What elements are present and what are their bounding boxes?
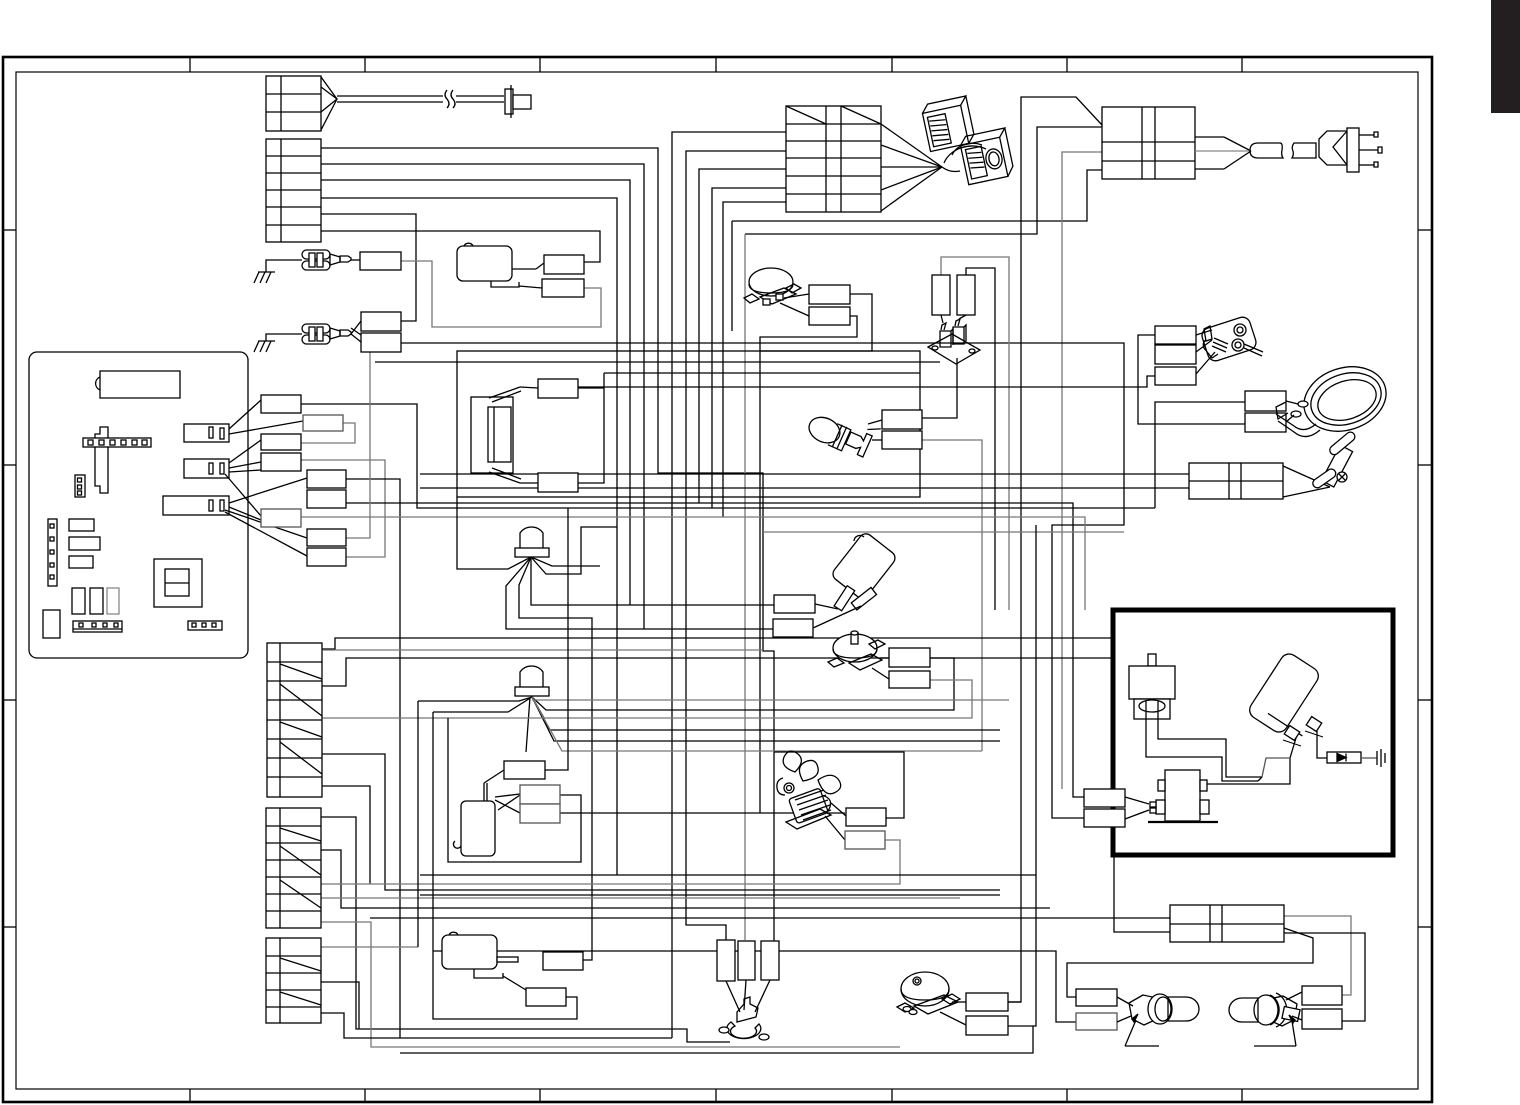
wire bus x732 [731, 221, 733, 331]
wire riser x1036 [1008, 525, 1036, 1026]
frame ticks right [1418, 230, 1432, 927]
wire label S6 [307, 490, 346, 508]
wire thermostat RB loop [760, 316, 857, 813]
bottom-right connector block G [1170, 905, 1284, 942]
wire CN-B row5 to R4 [321, 214, 416, 321]
wire B1 row3 gray [322, 680, 972, 718]
probe jack [505, 85, 531, 118]
terminal R5 [361, 333, 401, 352]
wire HV box to G row2 [1114, 855, 1170, 932]
capacitor wires [1207, 731, 1327, 784]
flame sensor terminals D2 [1155, 345, 1196, 364]
grill heater block F [1189, 463, 1330, 499]
frame ticks top [190, 57, 1242, 72]
interlock switch pictorial [719, 980, 770, 1040]
transformer primary terminals [1084, 789, 1149, 827]
wire S5 [346, 479, 400, 1038]
wire G out right j1 [1067, 928, 1313, 997]
wire CN-C row6 [723, 202, 786, 517]
wire bus x745 gray [744, 234, 746, 940]
wire B1 row4 [322, 754, 1000, 890]
wire S8 gray [346, 352, 370, 538]
wire lamp2 fan c [532, 697, 1000, 730]
wire B1 row5 [322, 786, 370, 884]
terminal K2 [1302, 1009, 1342, 1029]
wire lamp1 fan e [531, 557, 600, 566]
terminal R2 [544, 255, 584, 274]
wire door SW1 [578, 387, 604, 389]
wire P2 loop [448, 718, 581, 862]
wire Q2 loop [433, 712, 577, 1019]
wire lamp2 fan e gray [532, 697, 982, 751]
wire CN-C row4 [699, 169, 786, 503]
wire B2 row5 gray to fan Y2 [321, 840, 900, 884]
wire lamp2 fan b [532, 697, 544, 718]
temp probe cable [337, 90, 504, 108]
connector block B2 [266, 808, 321, 928]
connector CN-B (main harness) [266, 139, 321, 242]
wire SW1 long to D3 [578, 376, 1155, 387]
wire riser x418 [417, 701, 419, 947]
wire S7 long gray [301, 517, 1085, 610]
HV fuse holder [928, 315, 980, 364]
connector block B3 [266, 938, 321, 1023]
HV transformer [1148, 770, 1218, 822]
ground (HV) [1377, 749, 1385, 767]
interlock leads V5 [761, 941, 779, 980]
wire S2-S3 link gray [301, 423, 355, 443]
grill heater element pictorial [1311, 430, 1357, 489]
wire lamp1 fan c [531, 557, 774, 605]
frame ticks left [3, 230, 16, 927]
fuse F2 pictorial [302, 321, 361, 344]
wire B2 row6 gray [321, 897, 960, 899]
terminal X1 [889, 648, 930, 667]
wire label S3 [261, 434, 301, 450]
wire lamp1 fan b [519, 557, 592, 960]
magnetron [1129, 654, 1175, 719]
wire bus y221 to CN-D row3 [732, 170, 1102, 221]
terminal K1 [1302, 986, 1342, 1005]
wire CN-B row2 [321, 164, 644, 629]
wire CN-C row2 [672, 132, 786, 1038]
terminal Y2 [845, 831, 885, 849]
terminal RA [809, 285, 850, 304]
relay RY1 [457, 243, 544, 288]
wire R5 long [401, 343, 1124, 818]
wire CN-D row2 to HV [1062, 152, 1102, 789]
wire S6 long [346, 503, 1084, 797]
wire lamp1 fan d [531, 527, 617, 574]
wire lamp2 fan left2 [418, 697, 532, 701]
wire B2 row3 [321, 850, 1050, 908]
wire S1 long [301, 404, 1155, 508]
oven thermostat TH2 [828, 631, 889, 679]
wire P3 long [560, 812, 845, 814]
frame ticks bottom [190, 1089, 1242, 1102]
wire V2 to HV [966, 268, 995, 610]
wire label S1 [261, 395, 301, 413]
wire B1 row2 [322, 658, 1155, 686]
wire V1 to HV [941, 257, 1009, 610]
fuse F1 pictorial [302, 250, 360, 270]
wire B1 gray long [323, 649, 763, 651]
magnetron wires [1146, 711, 1262, 781]
terminal W2 [773, 619, 813, 637]
ground symbol 2 [254, 334, 302, 352]
connector CN-A (temp probe receptacle) [266, 76, 337, 131]
ground symbol 1 [254, 260, 302, 283]
buzzer [442, 932, 526, 990]
cavity lamp socket right [1229, 992, 1302, 1046]
terminal Y1 [846, 808, 886, 826]
door switch SW2 [538, 473, 578, 492]
terminal TM2 [966, 1016, 1008, 1035]
terminal R1 [360, 252, 401, 270]
terminal E1 [1245, 391, 1286, 411]
PCB fan-out wires [225, 400, 307, 556]
wire band y474 [420, 473, 1189, 475]
terminal X2 [889, 671, 930, 688]
wire G out right k2 [1284, 933, 1365, 1021]
HV capacitor [1246, 651, 1323, 746]
wire label S4 [261, 453, 301, 471]
wire B3 row1 gray [321, 946, 418, 948]
terminal J2 [1076, 1013, 1117, 1030]
wire y700 gray [532, 699, 1009, 701]
flame sensor terminals D1 [1155, 326, 1196, 344]
terminal Q2 [526, 988, 566, 1006]
wire label S2 [303, 415, 343, 431]
interlock leads V3 [717, 940, 735, 981]
door switch SW1 [538, 379, 578, 398]
terminal RB [809, 307, 850, 325]
wire CN-B row6 to R2 [321, 231, 600, 262]
wire band y488 [420, 487, 1189, 489]
HV fuse leads V2 [957, 275, 975, 315]
terminal P2 [520, 785, 560, 804]
wire B3 row5 [321, 1013, 672, 1038]
LED lamp 1 [515, 527, 549, 557]
terminal R3 [542, 279, 584, 297]
wire T2 out gray [922, 440, 982, 751]
oven lamp L1 pictorial [805, 402, 881, 462]
fan motor pictorial [777, 751, 846, 840]
wire B2 row7 gray [321, 922, 900, 1047]
wire G out right gray [1284, 916, 1351, 995]
wire label S5 [307, 470, 346, 488]
HV fuse leads V1 [932, 275, 950, 315]
page tab black [1491, 0, 1520, 113]
wire lamp2 fan down [526, 697, 530, 752]
terminal TM1 [966, 993, 1008, 1011]
cavity lamp socket left [1117, 994, 1199, 1046]
terminal P3 [520, 804, 560, 823]
power plug pictorial [1319, 128, 1382, 172]
wire band y895 [420, 894, 1000, 896]
power cord pictorial [1250, 143, 1316, 158]
wire CN-C row5 [712, 188, 786, 508]
blower motor pictorial [921, 96, 1015, 185]
flame sensor terminals D3 [1155, 367, 1196, 385]
terminal P1 [504, 761, 545, 779]
wire thermostat RA loop [760, 294, 872, 351]
wire band y918 [370, 917, 1170, 919]
wire B3 row3 [321, 982, 359, 1029]
wire CN-C row3 [686, 151, 786, 940]
high voltage compartment box [1113, 610, 1393, 855]
wire label S7 [261, 509, 301, 527]
wire P1 riser [545, 508, 568, 770]
terminal T1 [882, 410, 922, 429]
door latch bracket [471, 387, 538, 483]
humidity sensor pictorial [813, 531, 898, 628]
wire lamp2 fan left [433, 697, 532, 712]
terminal Q1 [543, 952, 583, 970]
wire CN-B row4 [321, 198, 617, 875]
connector block B1 [267, 643, 322, 797]
terminal E2 [1245, 413, 1286, 432]
terminal R4 [361, 312, 401, 331]
wire B1 row1 [322, 638, 1138, 649]
wire lamp2 fan d [532, 697, 1000, 741]
wire lamp2 fan a [532, 658, 954, 710]
wire CN-D top bypass [1008, 97, 1102, 1002]
wire TM1 out [1008, 1001, 1021, 1003]
wire fuse R1 loop gray [401, 261, 601, 327]
cavity thermostat TH1 [744, 268, 809, 316]
wire label S8 [307, 529, 346, 546]
wire y951 to J2 [433, 951, 1076, 1022]
wire D1 to E2 [1138, 335, 1245, 424]
wire CN-B row3 [321, 180, 630, 605]
wire holder to T1 [922, 358, 957, 418]
connector CN-D (power cord block) [1102, 107, 1251, 179]
wire B2 row1 [321, 817, 730, 1042]
terminal W1 [774, 595, 815, 613]
wire y362 [375, 361, 940, 363]
LED lamp 2 [515, 666, 549, 696]
connector CN-C (blower harness) [786, 106, 942, 212]
wire E1 [1155, 402, 1245, 508]
wire label S9 [307, 548, 346, 566]
HV diode [1327, 752, 1377, 763]
wire Y1 loop [774, 752, 904, 818]
wire band y875 [420, 874, 1036, 876]
wire lamp1 fan left [457, 497, 531, 569]
door switch enclosure [457, 351, 920, 497]
terminal J1 [1076, 989, 1117, 1006]
thermal cutout pictorial [1196, 315, 1263, 374]
wire lamp1 fan a [506, 557, 773, 629]
wire S4 gray [301, 460, 385, 557]
wire y532 gray [763, 531, 1124, 533]
wire CN-B row1 [321, 148, 774, 941]
wire bus y234 to CN-D row1 [745, 127, 1102, 234]
terminal T2 [882, 431, 922, 449]
timer motor pictorial [897, 972, 966, 1025]
wire bottom y1053 [400, 1026, 1033, 1053]
interlock leads V4 [738, 941, 755, 980]
convection heater loop [1276, 357, 1395, 442]
steam sensor / thermistor [453, 770, 520, 856]
control PCB [29, 352, 248, 658]
